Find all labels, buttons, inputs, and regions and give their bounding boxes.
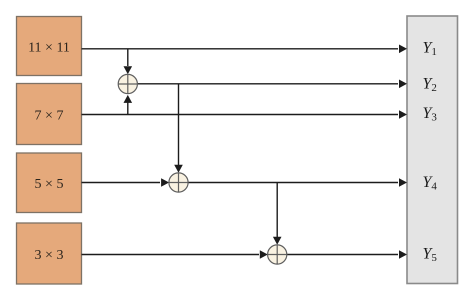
svg-text:3 × 3: 3 × 3	[35, 248, 64, 263]
svg-text:11 × 11: 11 × 11	[28, 40, 70, 55]
svg-text:5 × 5: 5 × 5	[35, 177, 64, 192]
svg-text:7 × 7: 7 × 7	[35, 108, 64, 123]
